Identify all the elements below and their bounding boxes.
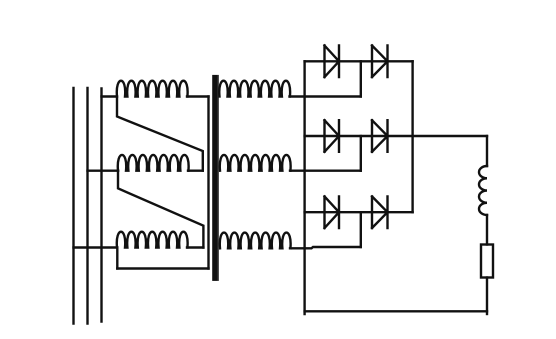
negative rail: [303, 61, 305, 314]
wire inductor to resistor: [486, 215, 488, 245]
diode D6: [372, 196, 388, 228]
wire tap L3 to P1: [102, 95, 117, 97]
wire P2 left leg diagonal to P3 right end: [118, 171, 203, 248]
wire P3 left leg: [116, 248, 118, 269]
transformer core bar 2: [218, 75, 219, 281]
wire S3 to bridge row 3: [290, 247, 361, 248]
secondary winding S3: [220, 233, 291, 249]
wire bottom bus: [305, 310, 487, 312]
wire tap L1 to P3: [74, 246, 118, 248]
wire P1 right lead: [187, 95, 209, 97]
inductor L load: [479, 166, 487, 215]
wire bridge row 2 to load: [305, 135, 487, 137]
diode D2: [372, 46, 388, 78]
wire S1 to bridge row 1: [290, 95, 361, 97]
wire delta right vertical: [207, 97, 209, 269]
phase line L1: [72, 88, 74, 324]
positive rail: [411, 61, 413, 212]
wire bridge row 1: [305, 60, 413, 62]
primary winding P2: [118, 155, 189, 171]
primary winding P3: [117, 232, 188, 248]
secondary winding S2: [220, 155, 291, 171]
wire P2 right lead: [188, 169, 203, 171]
transformer core bar 1: [212, 75, 217, 281]
diode D4: [372, 120, 388, 152]
resistor R load: [481, 245, 493, 278]
wire resistor to bus: [486, 278, 488, 315]
wire junction stub row 2: [360, 136, 362, 171]
phase line L2: [86, 88, 88, 324]
wire bridge row 3: [305, 211, 413, 213]
primary winding P1: [117, 81, 188, 97]
wire P3 right lead: [187, 246, 203, 248]
diode D5: [325, 196, 340, 228]
wire P1 left leg diagonal to P2 right end: [117, 97, 203, 171]
secondary winding S1: [219, 81, 290, 97]
wire load branch top: [486, 136, 488, 166]
phase line L3: [100, 89, 102, 322]
wire tap L2 to P2: [88, 169, 119, 171]
wire S2 to bridge row 2: [290, 169, 361, 171]
wire junction stub row 3: [360, 212, 362, 247]
wire junction stub row 1: [360, 61, 362, 96]
diode D3: [325, 120, 340, 152]
diode D1: [325, 46, 340, 78]
wire delta bottom: [117, 267, 208, 269]
